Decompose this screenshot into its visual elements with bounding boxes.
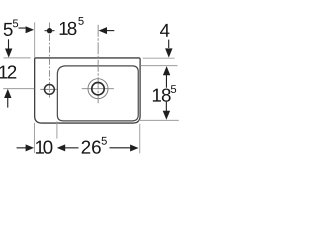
dimension 26.5 left arrow (points left) [57,144,65,151]
dimension 26.5 right tail [110,147,131,149]
dimension 26.5 right arrow (points right) [130,144,138,151]
dimension 18.5 right top tail [165,75,167,88]
dimension 5.5 arrow (points right) [26,26,34,33]
dimension 12 top arrow (points down) [5,49,12,58]
dimension 12 label [0,66,7,79]
dimension 4 arrow (points down) [165,48,172,57]
basin inner bowl outline [57,66,138,121]
dimension 18.5 right bottom tail [165,102,167,112]
dimension 4 arrow tail [168,40,170,48]
basin outer outline [35,58,140,123]
drain inner circle [92,83,104,95]
dimension 18.5 top label [60,22,68,35]
dimension 18.5 top tail line [106,30,114,32]
extension line: left top (basin top edge extended left) [3,57,30,59]
dot marker stub line [45,30,55,32]
extension line: bottom v1 (outer left edge extended down) [33,123,35,153]
extension line: right A (basin top edge extended right) [143,57,175,59]
extension line: bottom v3 (outer right edge extended down) [139,124,141,154]
dimension 5.5 leader line [19,27,27,29]
dimension 10 label [36,141,44,154]
tap hole crosshair (horizontal) [40,88,57,90]
dimension 10 leader tail (left) [17,147,27,149]
tap hole centerline (vertical, dashed) [48,23,50,98]
extension line: left bottom (tap center extended left) [3,88,34,90]
dimension 18.5 top arrow (points left) [99,27,107,34]
tap hole circle [45,85,55,95]
dimension 4 label [160,24,169,37]
dimension 18.5 right top arrow (points up) [163,66,170,75]
dimension 18.5 right bottom arrow (points down) [163,111,170,120]
extension line: bottom v2 (inner bowl left edge extended down) [56,121,58,138]
dimension 26.5 label [82,140,91,153]
dimension 10 left arrow (points right) [26,144,34,151]
extension line: basin left edge extended up [34,22,36,58]
dot marker (tap centerline) [47,28,52,33]
drain outer circle [88,79,108,99]
dimension 26.5 left tail [65,147,79,149]
dimension 12 bottom arrow (points up) [4,89,11,98]
dimension 18.5 right label [153,89,161,102]
dimension 12 top arrow tail [8,39,10,49]
extension line: right B (inner bowl top edge extended right) [141,65,178,67]
drain centerline (vertical) [97,25,99,103]
extension line: right C (inner bowl bottom edge extended right) [139,119,179,121]
dimension 12 bottom arrow tail [7,97,9,108]
dimension 5.5 label [4,23,13,36]
drain crosshair (horizontal) [82,88,114,90]
